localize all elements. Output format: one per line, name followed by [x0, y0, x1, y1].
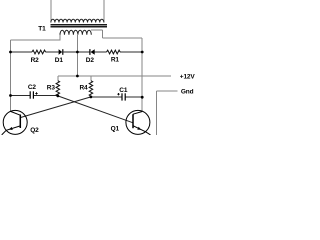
svg-text:Gnd: Gnd — [181, 89, 194, 96]
svg-text:R2: R2 — [31, 57, 40, 64]
svg-text:D2: D2 — [86, 57, 95, 64]
svg-text:R1: R1 — [111, 56, 120, 63]
svg-text:R3: R3 — [47, 84, 56, 91]
svg-text:T1: T1 — [38, 25, 46, 32]
svg-text:C1: C1 — [119, 87, 128, 94]
svg-text:R4: R4 — [80, 84, 89, 91]
svg-text:Q1: Q1 — [111, 126, 120, 133]
svg-text:C2: C2 — [28, 84, 37, 91]
svg-text:Q2: Q2 — [30, 127, 39, 134]
svg-text:+12V: +12V — [180, 73, 196, 80]
svg-text:D1: D1 — [55, 57, 64, 64]
